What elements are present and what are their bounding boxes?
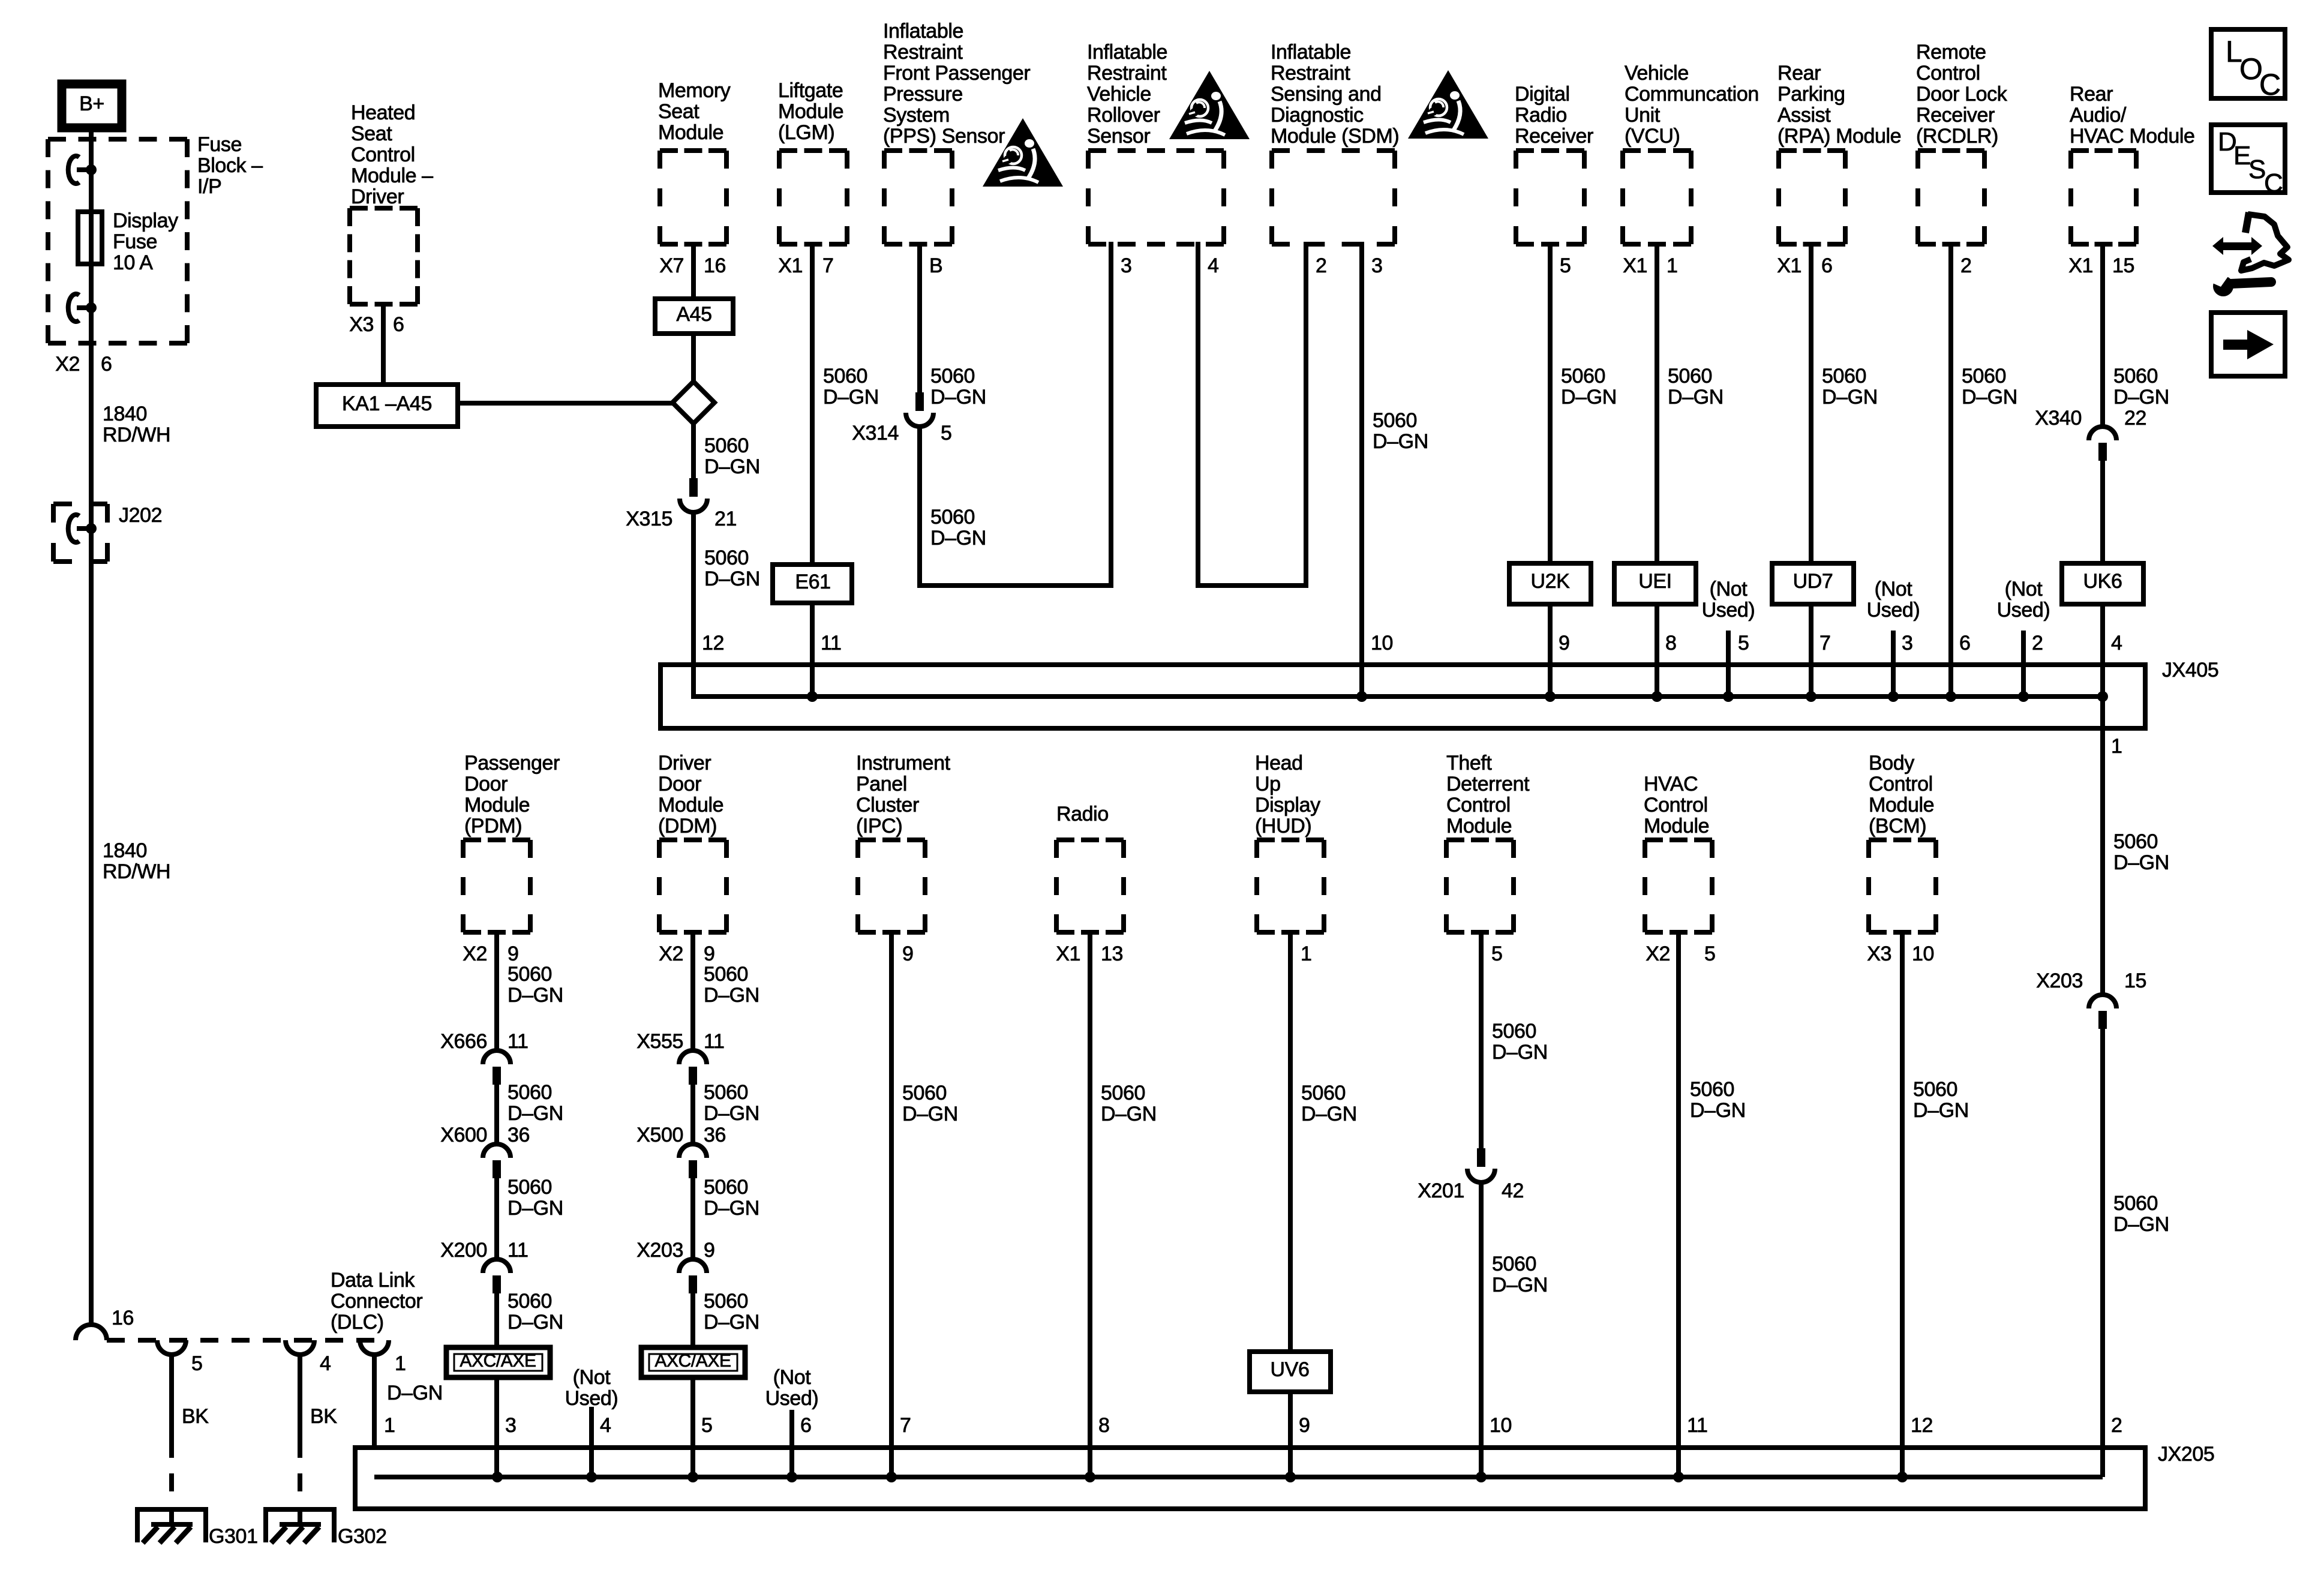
svg-text:D–GN: D–GN	[704, 1311, 759, 1334]
svg-text:J202: J202	[119, 504, 162, 527]
wire diamond to X315	[691, 421, 696, 478]
svg-text:Head: Head	[1255, 752, 1303, 775]
wire rollover pin 4 to SDM pin 2	[1196, 242, 1308, 588]
junction dot JX205 x1155	[687, 1472, 698, 1482]
label 5060 D-GN PDM 1	[508, 963, 563, 1007]
svg-text:System: System	[883, 104, 950, 127]
fuse block lower connector	[68, 294, 97, 322]
svg-text:A45: A45	[676, 303, 711, 326]
label BCM	[1869, 752, 1934, 837]
module Rear Audio / HVAC Module	[2071, 151, 2136, 244]
svg-text:U2K: U2K	[1531, 570, 1571, 593]
svg-text:Module: Module	[658, 121, 723, 144]
label 4	[2111, 632, 2122, 655]
pin label X7 16	[659, 254, 726, 277]
wire UV6 to JX205 pin 9	[1288, 1389, 1293, 1477]
svg-text:X500: X500	[636, 1124, 683, 1146]
label (Not Used) 5	[1702, 578, 1755, 622]
label 6	[1959, 632, 1971, 655]
bus JX205 inner wire	[374, 1475, 2103, 1479]
label 7	[1819, 632, 1831, 655]
wire DRR to U2K	[1548, 242, 1553, 566]
connector X314	[906, 392, 933, 427]
svg-text:5060: 5060	[508, 1176, 552, 1199]
junction dot JX405 x2762	[1652, 691, 1662, 702]
svg-text:9: 9	[1299, 1414, 1310, 1437]
label IPC	[856, 752, 951, 837]
svg-text:Receiver: Receiver	[1515, 125, 1593, 148]
label 4	[320, 1352, 331, 1375]
wire Radio to JX205 pin 8	[1088, 930, 1092, 1477]
connector X340	[2089, 427, 2116, 461]
svg-text:Seat: Seat	[351, 122, 392, 145]
label 5060 D-GN PPS lower	[930, 506, 986, 550]
connector X203 9	[679, 1259, 707, 1293]
svg-text:10: 10	[1490, 1414, 1512, 1437]
label 5060 D-GN IPC	[902, 1082, 958, 1125]
svg-text:D–GN: D–GN	[1822, 386, 1878, 409]
connector X200	[483, 1259, 511, 1293]
svg-text:1840: 1840	[103, 403, 147, 425]
connector J202	[68, 515, 97, 542]
svg-text:E61: E61	[795, 571, 830, 593]
svg-text:3: 3	[1371, 254, 1383, 277]
junction dot JX205 x829	[492, 1472, 503, 1482]
junction dot JX205 x2151	[1285, 1472, 1296, 1482]
wire PPS to X314	[917, 242, 922, 392]
label 5060 D-GN PDM 4	[508, 1290, 563, 1334]
module Liftgate Module (LGM)	[779, 151, 847, 244]
svg-text:HVAC Module: HVAC Module	[2070, 125, 2195, 148]
label HVAC Control Module	[1644, 773, 1709, 837]
label Digital Radio Receiver	[1515, 83, 1593, 148]
bus JX405 inner wire	[693, 694, 2103, 699]
stub JX405 pin 3 not used	[1891, 631, 1896, 697]
label 5060 D-GN DDM 4	[704, 1290, 759, 1334]
svg-text:D–GN: D–GN	[1913, 1099, 1969, 1122]
svg-text:2: 2	[2032, 632, 2043, 655]
svg-text:Inflatable: Inflatable	[1271, 41, 1351, 64]
label 5060 D-GN HVAC	[1690, 1078, 1746, 1122]
wire X315 to JX405 pin 12	[691, 512, 696, 699]
svg-text:Rollover: Rollover	[1087, 104, 1160, 127]
module Vehicle Communcation Unit (VCU)	[1623, 151, 1691, 244]
svg-text:16: 16	[112, 1307, 134, 1329]
svg-text:X2: X2	[55, 353, 80, 376]
svg-text:11: 11	[821, 632, 842, 655]
svg-text:7: 7	[1819, 632, 1831, 655]
option box KA1 -A45	[316, 385, 458, 427]
svg-text:BK: BK	[182, 1405, 209, 1428]
pin label X2 9	[659, 942, 714, 965]
junction dot JX405 x3505	[2097, 691, 2108, 702]
svg-text:Remote: Remote	[1916, 41, 1986, 64]
label 2	[2032, 632, 2043, 655]
module Head Up Display (HUD)	[1257, 840, 1324, 932]
svg-text:Driver: Driver	[351, 185, 404, 208]
wire X555 to X500	[690, 1085, 695, 1144]
svg-text:7: 7	[822, 254, 834, 277]
svg-text:(PPS) Sensor: (PPS) Sensor	[883, 125, 1005, 148]
svg-text:11: 11	[508, 1030, 529, 1053]
svg-text:X1: X1	[1777, 254, 1801, 277]
label X201 42	[1418, 1179, 1524, 1202]
svg-text:X3: X3	[1867, 942, 1891, 965]
label 12	[1911, 1414, 1933, 1437]
svg-text:HVAC: HVAC	[1644, 773, 1698, 795]
svg-text:5060: 5060	[1822, 365, 1866, 388]
svg-text:X1: X1	[2068, 254, 2093, 277]
icon LOC box	[2211, 29, 2285, 101]
label X314 5	[852, 422, 951, 445]
svg-text:5060: 5060	[902, 1082, 947, 1104]
pin label X1 13	[1056, 942, 1123, 965]
label X500 36	[636, 1124, 726, 1146]
svg-text:X340: X340	[2035, 407, 2082, 430]
svg-text:Unit: Unit	[1625, 104, 1661, 127]
svg-text:D–GN: D–GN	[704, 455, 760, 478]
wire KA1 to splice diamond	[455, 401, 674, 406]
wire PDM to X666	[494, 930, 499, 1050]
connector DLC pin 16 end	[76, 1325, 107, 1340]
wire RCDLR to JX405 pin 6	[1948, 242, 1953, 697]
svg-text:B+: B+	[79, 92, 104, 115]
svg-text:5060: 5060	[1492, 1253, 1536, 1275]
svg-text:3: 3	[1121, 254, 1132, 277]
label circuit 1840 RD/WH upper	[103, 403, 170, 446]
label 7	[900, 1414, 911, 1437]
wire BCM to JX205 pin 12	[1900, 930, 1905, 1477]
wire X600 to X200	[494, 1178, 499, 1259]
junction dot JX205 x2469	[1476, 1472, 1487, 1482]
label 9	[1559, 632, 1570, 655]
pin label X2 6	[55, 353, 112, 376]
module Heated Seat Control Module - Driver	[350, 208, 418, 304]
label VCU	[1625, 62, 1759, 148]
wire AXC/AXE to JX205 pin 5	[690, 1375, 695, 1477]
label 5060 D-GN right upper	[2113, 830, 2169, 874]
svg-text:X314: X314	[852, 422, 899, 445]
svg-text:KA1 –A45: KA1 –A45	[342, 392, 432, 415]
svg-text:1840: 1840	[103, 839, 147, 862]
pin label X2 5	[1646, 942, 1715, 965]
label (Not Used) 3	[1867, 578, 1920, 622]
label 3	[1902, 632, 1913, 655]
pin label 3	[1371, 254, 1383, 277]
svg-text:5: 5	[1560, 254, 1571, 277]
svg-text:Front Passenger: Front Passenger	[883, 62, 1030, 85]
battery feed symbol B+	[62, 84, 122, 128]
label 5060 D-GN Theft 2	[1492, 1253, 1548, 1296]
label X200 11	[440, 1239, 528, 1262]
svg-text:B: B	[929, 254, 942, 277]
label Data Link Connector (DLC)	[331, 1269, 422, 1334]
wire DDM to X555	[690, 930, 695, 1050]
svg-text:Rear: Rear	[2070, 83, 2113, 106]
label J202	[119, 504, 162, 527]
wire RPA to UD7	[1809, 242, 1813, 566]
junction dot JX405 x3156	[1888, 691, 1899, 702]
svg-text:5060: 5060	[704, 1176, 748, 1199]
wire LGM to E61	[810, 242, 815, 567]
wire Theft to X201	[1479, 930, 1484, 1148]
connector J202 dashed box	[53, 504, 107, 562]
svg-text:1: 1	[384, 1414, 395, 1437]
svg-text:9: 9	[704, 942, 715, 965]
svg-text:Door: Door	[658, 773, 701, 795]
pin label 4	[1208, 254, 1219, 277]
junction dot JX205 x1320	[786, 1472, 797, 1482]
wire rear audio to X340	[2100, 242, 2105, 428]
svg-text:X315: X315	[626, 508, 672, 530]
label JX405	[2162, 659, 2218, 682]
svg-text:(VCU): (VCU)	[1625, 125, 1680, 148]
svg-text:Module (SDM): Module (SDM)	[1271, 125, 1399, 148]
svg-text:4: 4	[320, 1352, 331, 1375]
svg-text:5060: 5060	[930, 506, 975, 529]
svg-text:5060: 5060	[1561, 365, 1605, 388]
option box UV6	[1250, 1352, 1331, 1392]
svg-text:Receiver: Receiver	[1916, 104, 1995, 127]
svg-text:Module: Module	[1644, 815, 1709, 837]
SRS triangle icon rollover	[1169, 71, 1250, 139]
svg-text:Control: Control	[1446, 794, 1511, 816]
option box UEI	[1614, 563, 1696, 604]
svg-text:UV6: UV6	[1271, 1358, 1310, 1381]
label X666 11	[440, 1030, 528, 1053]
connector X201	[1467, 1148, 1495, 1182]
module Remote Control Door Lock Receiver (RCDLR)	[1918, 151, 1984, 244]
svg-text:Liftgate: Liftgate	[778, 79, 843, 102]
svg-text:X1: X1	[1623, 254, 1647, 277]
svg-text:5060: 5060	[1668, 365, 1712, 388]
svg-text:Module –: Module –	[351, 164, 433, 187]
svg-text:JX405: JX405	[2162, 659, 2218, 682]
label Radio	[1056, 803, 1109, 825]
label 3	[505, 1414, 517, 1437]
label 5	[1738, 632, 1749, 655]
svg-text:Used): Used)	[565, 1387, 618, 1410]
svg-text:Used): Used)	[765, 1387, 819, 1410]
svg-text:Fuse: Fuse	[113, 230, 157, 253]
pin label X3 6	[349, 313, 404, 336]
module Body Control Module (BCM)	[1869, 840, 1936, 932]
label 11	[1687, 1414, 1708, 1437]
svg-text:Restraint: Restraint	[1271, 62, 1350, 85]
svg-text:Module: Module	[1446, 815, 1512, 837]
svg-text:X2: X2	[463, 942, 487, 965]
option box UD7	[1772, 563, 1854, 604]
svg-text:7: 7	[900, 1414, 911, 1437]
svg-text:1: 1	[1301, 942, 1312, 965]
svg-text:D–GN: D–GN	[1301, 1103, 1357, 1125]
svg-text:11: 11	[1687, 1414, 1708, 1437]
label 5060 D-GN LGM	[823, 365, 879, 409]
svg-text:Control: Control	[1644, 794, 1708, 816]
svg-text:D–GN: D–GN	[1668, 386, 1724, 409]
svg-text:5060: 5060	[1690, 1078, 1734, 1101]
svg-text:D–GN: D–GN	[508, 1102, 563, 1125]
label X340 22	[2035, 407, 2146, 430]
wire JX405 pin 1 down to X203	[2100, 697, 2105, 996]
svg-text:Vehicle: Vehicle	[1087, 83, 1151, 106]
label D-GN	[387, 1382, 443, 1404]
svg-text:X600: X600	[440, 1124, 487, 1146]
module Inflatable Restraint Vehicle Rollover Sensor	[1088, 151, 1224, 244]
svg-text:Sensor: Sensor	[1087, 125, 1150, 148]
svg-text:5060: 5060	[704, 547, 749, 569]
pin label X1 7	[778, 254, 833, 277]
svg-text:2: 2	[1316, 254, 1327, 277]
svg-text:5060: 5060	[704, 963, 748, 986]
svg-text:X203: X203	[2036, 969, 2083, 992]
svg-text:5060: 5060	[1373, 409, 1417, 432]
svg-text:Audio/: Audio/	[2070, 104, 2127, 127]
label 5060 D-GN rear audio	[2113, 365, 2169, 409]
svg-text:D–GN: D–GN	[823, 386, 879, 409]
svg-text:Deterrent: Deterrent	[1446, 773, 1530, 795]
wire memory seat to A45	[691, 242, 696, 301]
wire X666 to X600	[494, 1085, 499, 1144]
svg-text:2: 2	[1960, 254, 1972, 277]
label JX205	[2158, 1443, 2214, 1466]
stub JX405 pin 2 not used	[2021, 631, 2026, 697]
svg-text:D–GN: D–GN	[1101, 1103, 1157, 1125]
pin label 5	[1560, 254, 1571, 277]
module Memory Seat Module	[660, 151, 726, 244]
svg-text:D–GN: D–GN	[704, 568, 760, 590]
svg-text:Up: Up	[1255, 773, 1281, 795]
svg-text:(Not: (Not	[2005, 578, 2043, 601]
label 1	[395, 1352, 406, 1375]
junction dot JX205 x1817	[1085, 1472, 1095, 1482]
wire dashed ground G302	[298, 1440, 302, 1507]
svg-text:Module: Module	[778, 100, 843, 123]
module Instrument Panel Cluster (IPC)	[858, 840, 925, 932]
svg-text:Display: Display	[1255, 794, 1320, 816]
pin label 2	[1960, 254, 1972, 277]
wire X203 to JX205 pin 2	[2100, 1029, 2105, 1477]
svg-text:D–GN: D–GN	[930, 527, 986, 550]
label X555 11	[636, 1030, 724, 1053]
svg-text:Restraint: Restraint	[883, 41, 963, 64]
svg-text:15: 15	[2124, 969, 2146, 992]
connector X600	[483, 1144, 511, 1178]
svg-text:C: C	[2264, 169, 2283, 198]
label X203 9	[636, 1239, 714, 1262]
svg-text:10: 10	[1371, 632, 1393, 655]
label 16	[112, 1307, 134, 1329]
junction dot JX405 x3373	[2018, 691, 2029, 702]
pin label 9	[902, 942, 914, 965]
svg-text:I/P: I/P	[197, 175, 221, 198]
svg-text:(DLC): (DLC)	[331, 1311, 384, 1334]
svg-text:Used): Used)	[1702, 599, 1755, 622]
svg-text:5: 5	[1491, 942, 1503, 965]
wire AXC/AXE to JX205 pin 3	[494, 1375, 499, 1477]
fuse block dashed box	[48, 139, 187, 343]
wire X500 to X203	[690, 1178, 695, 1259]
svg-text:Restraint: Restraint	[1087, 62, 1167, 85]
svg-text:Door: Door	[464, 773, 508, 795]
wire X203 to AXC/AXE	[690, 1293, 695, 1350]
pin label 5	[1491, 942, 1503, 965]
module Driver Door Module (DDM)	[659, 840, 726, 932]
svg-text:D–GN: D–GN	[704, 1197, 759, 1220]
svg-text:Door Lock: Door Lock	[1916, 83, 2008, 106]
wire X201 to JX205 pin 10	[1479, 1181, 1484, 1477]
module Rear Parking Assist (RPA) Module	[1779, 151, 1845, 244]
wire X340 to UK6	[2100, 461, 2105, 566]
svg-text:D–GN: D–GN	[387, 1382, 443, 1404]
label 5060 D-GN memory 2	[704, 547, 760, 590]
svg-text:Cluster: Cluster	[856, 794, 919, 816]
label G301	[209, 1525, 258, 1548]
svg-text:Body: Body	[1869, 752, 1914, 775]
svg-text:5060: 5060	[1962, 365, 2006, 388]
splice diamond	[672, 382, 714, 424]
label 9	[1299, 1414, 1310, 1437]
option box AXC/AXE left	[446, 1347, 550, 1377]
svg-text:21: 21	[714, 508, 737, 530]
svg-text:D–GN: D–GN	[508, 1197, 563, 1220]
wire E61 to JX405 pin 11	[810, 601, 815, 697]
svg-text:Used): Used)	[1867, 599, 1920, 622]
label Memory Seat Module	[658, 79, 731, 144]
wire HUD to UV6	[1288, 930, 1293, 1354]
stub JX205 pin 4 not used	[589, 1407, 594, 1477]
svg-text:12: 12	[702, 632, 724, 655]
icon DESC box	[2211, 125, 2285, 198]
icon forward arrow box	[2211, 313, 2285, 376]
pin label 2	[1316, 254, 1327, 277]
svg-text:5: 5	[941, 422, 952, 445]
module Inflatable Restraint Front Passenger Pressure System (PPS) Sensor	[884, 151, 952, 244]
svg-text:Radio: Radio	[1056, 803, 1109, 825]
svg-text:13: 13	[1101, 942, 1123, 965]
label (Not Used) 6	[765, 1366, 819, 1410]
svg-text:6: 6	[800, 1414, 812, 1437]
svg-text:X666: X666	[440, 1030, 487, 1053]
svg-text:D–GN: D–GN	[1492, 1041, 1548, 1064]
svg-text:9: 9	[1559, 632, 1570, 655]
label 5060 D-GN HUD	[1301, 1082, 1357, 1125]
wire B+ feed vertical	[89, 130, 94, 1327]
svg-text:X3: X3	[349, 313, 374, 336]
svg-text:Control: Control	[1916, 62, 1980, 85]
svg-text:16: 16	[704, 254, 726, 277]
svg-text:D–GN: D–GN	[930, 386, 986, 409]
svg-text:5060: 5060	[704, 1081, 748, 1104]
svg-text:Inflatable: Inflatable	[883, 20, 963, 43]
wire dashed ground G301	[169, 1440, 174, 1507]
svg-text:5060: 5060	[704, 1290, 748, 1313]
fuse block upper connector	[68, 156, 97, 184]
svg-text:42: 42	[1502, 1179, 1524, 1202]
wire UEI to JX405 pin 8	[1655, 602, 1659, 697]
svg-text:2: 2	[2111, 1414, 2122, 1437]
pin label X2 9	[463, 942, 518, 965]
svg-text:Vehicle: Vehicle	[1625, 62, 1689, 85]
svg-text:15: 15	[2112, 254, 2134, 277]
module Radio	[1056, 840, 1124, 932]
pin label 3	[1121, 254, 1132, 277]
wire IPC to JX205 pin 7	[889, 930, 894, 1477]
label 5060 D-GN DRR	[1561, 365, 1617, 409]
wire X314 down	[917, 427, 922, 588]
module HVAC Control Module	[1645, 840, 1712, 932]
svg-text:(Not: (Not	[1875, 578, 1913, 601]
